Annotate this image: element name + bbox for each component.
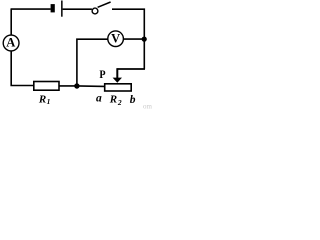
svg-text:om: om xyxy=(143,103,152,111)
rheostat R2: slider arrow shaft xyxy=(116,68,118,78)
resistor R1: box xyxy=(34,82,59,91)
svg-text:V: V xyxy=(111,32,120,46)
wire top-left (corner to battery) xyxy=(11,8,50,10)
svg-text:P: P xyxy=(99,67,105,81)
rheostat R2: slider arrowhead xyxy=(113,78,122,83)
rheostat R2: slider wire from right vertical xyxy=(117,68,145,70)
svg-text:2: 2 xyxy=(117,98,122,107)
wire switch to top-right corner, down right side to slider wire xyxy=(112,9,144,69)
svg-text:1: 1 xyxy=(47,97,51,106)
svg-text:A: A xyxy=(6,35,15,49)
battery cell: short thick negative plate xyxy=(51,4,55,12)
voltmeter V: circle xyxy=(108,31,124,47)
ammeter A: circle xyxy=(3,35,19,51)
wire voltmeter to right side xyxy=(124,38,145,40)
rheostat R2: box xyxy=(105,84,132,91)
wire left vertical (corner down to ammeter) xyxy=(10,8,12,35)
junction node (R1 / R2 / voltmeter tap) xyxy=(74,83,79,88)
svg-text:a: a xyxy=(96,92,102,104)
switch S1: blade (open) xyxy=(98,2,111,7)
svg-text:R: R xyxy=(109,93,117,105)
background xyxy=(0,0,152,110)
switch S1: pivot circle xyxy=(92,8,98,14)
voltmeter branch: vertical wire from junction up, horizontal to voltmeter xyxy=(77,39,108,86)
wire battery to switch xyxy=(63,8,92,10)
svg-text:R: R xyxy=(38,94,46,106)
wire ammeter down and bottom-left to R1 xyxy=(11,51,34,86)
svg-text:b: b xyxy=(130,94,136,106)
battery cell: long thin positive plate xyxy=(61,1,63,17)
junction node (voltmeter / right wire) xyxy=(142,37,147,42)
wire R1 to junction node xyxy=(59,85,105,88)
